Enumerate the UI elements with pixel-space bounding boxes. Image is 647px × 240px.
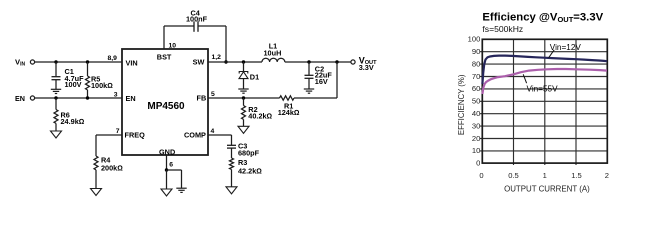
- pin number 4: [211, 128, 215, 135]
- chart title: [482, 11, 603, 24]
- node R5/EN junction: [86, 96, 89, 99]
- svg-text:680pF: 680pF: [238, 148, 260, 157]
- svg-text:6: 6: [169, 162, 173, 169]
- wire SW rail: [208, 61, 262, 63]
- label Vin=55V with leader: [523, 74, 558, 93]
- svg-text:10: 10: [169, 42, 177, 49]
- svg-text:40: 40: [472, 109, 480, 118]
- wire GND to signal ground: [166, 170, 168, 189]
- svg-text:VIN: VIN: [15, 58, 25, 68]
- pin name FREQ: [125, 131, 146, 140]
- svg-text:EFFICIENCY (%): EFFICIENCY (%): [457, 74, 466, 135]
- pin name EN: [126, 94, 136, 103]
- label R5 value: [91, 75, 113, 90]
- svg-text:16V: 16V: [315, 77, 328, 86]
- node C1/VIN junction: [54, 60, 57, 63]
- pin number 1,2: [212, 54, 222, 61]
- svg-text:90: 90: [472, 47, 480, 56]
- capacitor C3: [227, 145, 236, 158]
- y axis title: [457, 74, 466, 135]
- svg-text:3.3V: 3.3V: [359, 63, 374, 72]
- label EN: [15, 94, 25, 103]
- pin name GND: [159, 148, 175, 157]
- inductor L1: [262, 58, 285, 62]
- node R2/FB junction: [242, 96, 245, 99]
- svg-text:1,2: 1,2: [212, 54, 222, 61]
- svg-text:Efficiency @VOUT=3.3V: Efficiency @VOUT=3.3V: [482, 11, 603, 24]
- svg-text:2: 2: [605, 171, 609, 180]
- svg-text:24.9kΩ: 24.9kΩ: [61, 117, 85, 126]
- svg-text:100V: 100V: [65, 80, 82, 89]
- resistor R3: [230, 158, 234, 187]
- svg-text:COMP: COMP: [184, 131, 206, 140]
- wire COMP pin: [208, 135, 232, 145]
- pin number 6: [169, 162, 173, 169]
- wire R1 to VOUT: [294, 62, 337, 98]
- svg-text:100nF: 100nF: [186, 14, 208, 23]
- wire GND pin: [166, 155, 168, 170]
- terminal VIN: [30, 60, 34, 64]
- resistor R4: [94, 156, 98, 189]
- capacitor C1: [52, 62, 61, 89]
- node GND junction: [165, 168, 168, 171]
- curve Vin=12V: [482, 56, 607, 84]
- label VIN: [15, 58, 25, 68]
- node C4/SW junction: [224, 60, 227, 63]
- pin number 3: [114, 91, 118, 98]
- resistor R2: [242, 98, 246, 126]
- label R1 value: [278, 101, 300, 117]
- ground R3 (triangle): [226, 187, 237, 194]
- label VOUT: [359, 55, 377, 72]
- chart gridlines: [480, 39, 607, 165]
- svg-text:200kΩ: 200kΩ: [101, 163, 123, 172]
- label Vin=12V with leader: [549, 43, 582, 58]
- pin number 7: [116, 128, 120, 135]
- svg-text:100kΩ: 100kΩ: [91, 81, 113, 90]
- wire BST pin: [164, 26, 194, 49]
- pin name SW: [193, 57, 205, 66]
- svg-text:7: 7: [116, 128, 120, 135]
- ground GND (triangle): [161, 189, 172, 196]
- node C2 junction: [307, 60, 310, 63]
- svg-text:40.2kΩ: 40.2kΩ: [248, 112, 272, 121]
- resistor R6: [54, 98, 58, 131]
- node R1 branch junction: [335, 60, 338, 63]
- ground D1: [238, 89, 248, 93]
- ground C1: [51, 89, 61, 93]
- svg-text:10: 10: [472, 146, 480, 155]
- node R6/EN junction: [54, 96, 57, 99]
- svg-text:fs=500kHz: fs=500kHz: [482, 24, 523, 34]
- svg-text:100: 100: [468, 35, 481, 44]
- label MP4560: [147, 101, 185, 112]
- curve Vin=55V: [482, 69, 607, 94]
- svg-text:10uH: 10uH: [264, 49, 282, 58]
- label C2 value: [315, 64, 333, 86]
- label R3 value: [238, 158, 262, 175]
- wire FREQ pin: [96, 135, 122, 156]
- resistor R5: [86, 62, 90, 98]
- capacitor C2: [305, 62, 314, 89]
- svg-text:1: 1: [543, 171, 547, 180]
- pin number 8,9: [108, 55, 118, 62]
- wire VOUT rail: [285, 61, 351, 63]
- ground C2: [304, 89, 314, 93]
- svg-text:42.2kΩ: 42.2kΩ: [238, 166, 262, 175]
- svg-text:5: 5: [211, 91, 215, 98]
- svg-text:4: 4: [211, 128, 215, 135]
- label C1 value: [65, 67, 85, 89]
- svg-text:50: 50: [472, 97, 480, 106]
- ground R6 (triangle): [51, 131, 62, 138]
- svg-text:20: 20: [472, 134, 480, 143]
- svg-text:70: 70: [472, 72, 480, 81]
- pin name FB: [197, 93, 207, 102]
- label R6 value: [61, 111, 85, 127]
- svg-text:80: 80: [472, 59, 480, 68]
- svg-text:EN: EN: [126, 94, 136, 103]
- svg-text:0: 0: [479, 171, 483, 180]
- wire EN rail: [35, 97, 122, 99]
- x axis labels: [479, 171, 609, 180]
- svg-text:MP4560: MP4560: [147, 101, 185, 112]
- svg-text:OUTPUT CURRENT (A): OUTPUT CURRENT (A): [504, 184, 590, 193]
- svg-text:EN: EN: [15, 94, 25, 103]
- terminal EN: [30, 96, 34, 100]
- y axis labels: [468, 35, 481, 168]
- svg-text:FREQ: FREQ: [125, 131, 146, 140]
- label D1: [250, 73, 259, 82]
- pin number 5: [211, 91, 215, 98]
- op-amp U1 MP4560: [122, 49, 208, 155]
- svg-text:1.5: 1.5: [571, 171, 582, 180]
- chart subtitle fs=500kHz: [482, 24, 523, 34]
- x axis title: [504, 184, 590, 193]
- pin name BST: [157, 52, 172, 61]
- svg-text:8,9: 8,9: [108, 55, 118, 62]
- ground R4 (triangle): [91, 189, 102, 196]
- pin number 10: [169, 42, 177, 49]
- diode D1 (schottky): [239, 62, 248, 89]
- label R4 value: [101, 155, 123, 172]
- label C4 value: [186, 8, 208, 23]
- svg-text:Vin=12V: Vin=12V: [550, 43, 582, 52]
- svg-text:D1: D1: [250, 73, 259, 82]
- svg-text:3: 3: [114, 91, 118, 98]
- svg-text:30: 30: [472, 121, 480, 130]
- resistor R1: [280, 96, 294, 100]
- label L1 value: [264, 41, 282, 57]
- svg-text:Vin=55V: Vin=55V: [527, 84, 559, 93]
- terminal VOUT: [351, 60, 355, 64]
- label R2 value: [248, 105, 272, 120]
- svg-text:60: 60: [472, 84, 480, 93]
- wire C4 to SW: [198, 26, 226, 62]
- wire GND to power ground: [167, 170, 182, 188]
- svg-text:VIN: VIN: [126, 58, 138, 67]
- capacitor C4: [194, 21, 198, 32]
- wire VIN rail: [35, 61, 122, 63]
- ground GND (bars): [176, 188, 186, 192]
- svg-text:FB: FB: [197, 93, 207, 102]
- ground R2 (triangle): [238, 126, 249, 133]
- svg-text:BST: BST: [157, 52, 172, 61]
- label C3 value: [238, 141, 260, 157]
- node D1/SW junction: [242, 60, 245, 63]
- svg-text:0: 0: [476, 158, 480, 167]
- svg-text:SW: SW: [193, 57, 205, 66]
- wire FB rail: [208, 97, 280, 99]
- svg-text:0.5: 0.5: [508, 171, 519, 180]
- svg-text:124kΩ: 124kΩ: [278, 108, 300, 117]
- pin name COMP: [184, 131, 206, 140]
- pin name VIN: [126, 58, 138, 67]
- node R5/VIN junction: [86, 60, 89, 63]
- chart plot border: [482, 39, 607, 163]
